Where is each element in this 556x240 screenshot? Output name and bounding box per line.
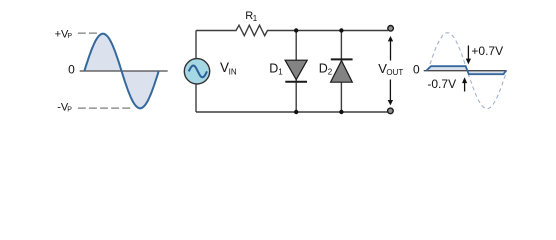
svg-text:D: D bbox=[319, 61, 328, 75]
svg-text:P: P bbox=[67, 107, 72, 114]
svg-text:2: 2 bbox=[328, 68, 333, 77]
svg-text:IN: IN bbox=[229, 68, 237, 77]
svg-text:-0.7V: -0.7V bbox=[427, 77, 456, 91]
svg-text:P: P bbox=[67, 33, 72, 40]
svg-text:OUT: OUT bbox=[386, 68, 403, 77]
svg-text:1: 1 bbox=[253, 14, 258, 23]
svg-text:0: 0 bbox=[413, 62, 420, 76]
svg-text:0: 0 bbox=[68, 63, 75, 77]
svg-text:1: 1 bbox=[278, 68, 283, 77]
svg-text:D: D bbox=[269, 61, 278, 75]
svg-text:+0.7V: +0.7V bbox=[471, 44, 503, 58]
